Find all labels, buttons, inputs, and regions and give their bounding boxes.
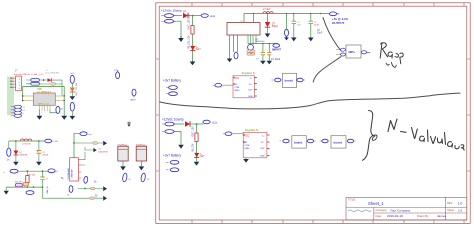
ground — [194, 162, 200, 166]
wire to charger — [74, 134, 80, 158]
svg-text:WiFi uc 2.4: WiFi uc 2.4 — [38, 104, 50, 106]
arrow mid — [71, 92, 73, 96]
diode D4 schottky — [265, 14, 279, 38]
diode D12 — [185, 121, 190, 126]
wire 5v rail — [244, 13, 330, 15]
rasp module box — [346, 45, 361, 58]
ground left — [4, 187, 9, 195]
svg-text:GND+: GND+ — [244, 148, 251, 150]
wire to ground — [177, 132, 182, 145]
connector oval bottom — [70, 102, 74, 111]
svg-text:C? 10uF: C? 10uF — [271, 58, 281, 61]
connector pin to regulator U4 — [213, 83, 233, 87]
svg-text:OUTPUT: OUTPUT — [332, 21, 345, 25]
LED column — [70, 73, 79, 120]
svg-text:CHARGER: CHARGER — [70, 168, 73, 178]
inductor L2 — [263, 8, 273, 14]
right pins down — [248, 35, 256, 44]
isolated connector pin A — [114, 70, 120, 79]
wire branch arrow 1 — [74, 141, 107, 146]
ground bottom — [71, 111, 73, 116]
transistor Q1 loop — [50, 106, 64, 113]
svg-text:2: 2 — [41, 110, 42, 112]
svg-text:James: James — [437, 214, 447, 218]
handwriting Rasp — [380, 43, 403, 64]
output connector — [329, 12, 339, 16]
svg-text:4: 4 — [47, 110, 48, 112]
connector oval in — [3, 169, 18, 174]
svg-text:OUT: OUT — [260, 148, 265, 150]
junctions on rail — [267, 13, 269, 15]
wires to rail — [51, 80, 62, 96]
zener D3 — [13, 141, 28, 166]
svg-text:L? 47uH: L? 47uH — [22, 144, 31, 146]
junction — [196, 123, 198, 125]
svg-text:GND+: GND+ — [234, 90, 241, 92]
svg-text:OUT_12V_10A: OUT_12V_10A — [188, 13, 191, 29]
resistor R1 tan — [51, 83, 56, 86]
wire 12v rail down — [192, 16, 194, 61]
pen stroke output to rasp — [323, 18, 342, 52]
svg-text:VCC: VCC — [234, 77, 239, 80]
svg-text:board: board — [285, 79, 294, 83]
svg-text:+3v7 Battery: +3v7 Battery — [163, 79, 181, 83]
capacitor C1 bulk — [36, 141, 49, 166]
feedback resistors R — [247, 50, 255, 55]
sheet outer frame — [156, 3, 470, 224]
border tick marks — [156, 3, 470, 224]
rail down — [196, 124, 198, 162]
svg-text:GND: GND — [248, 96, 253, 98]
board module 2 — [280, 136, 316, 148]
connector pin bat1 — [166, 86, 177, 90]
junction — [192, 15, 194, 17]
connector oval B- — [68, 186, 73, 197]
svg-text:GND?: GND? — [130, 100, 137, 102]
svg-text:5): 5) — [95, 194, 97, 198]
resistor R10 fuse — [191, 26, 194, 35]
svg-text:REV:: REV: — [447, 201, 453, 205]
regulator U5 right pin stubs — [267, 135, 270, 156]
svg-text:INPUT: INPUT — [272, 48, 281, 52]
connector oval below — [26, 191, 34, 195]
capacitor C5 — [291, 14, 301, 42]
net label output — [332, 17, 349, 25]
regulator U4 body — [233, 72, 256, 98]
connector pin EN2 — [285, 14, 289, 37]
svg-text:Sheet:: Sheet: — [447, 208, 455, 212]
svg-text:GND: GND — [260, 156, 265, 158]
fuse F1 — [26, 79, 39, 86]
connector pin 2 — [162, 130, 177, 134]
connector pin bat4 — [166, 168, 179, 172]
resistor fuse 2 — [195, 133, 198, 142]
pin wire 2 up to 5v rail — [253, 14, 255, 23]
power arrow +5v — [284, 35, 289, 40]
handwriting N - Valvulas — [388, 119, 464, 150]
right pins — [55, 96, 64, 101]
power flag small — [127, 122, 131, 127]
op U3 buck module body — [227, 21, 260, 35]
svg-text:+12v: +12v — [210, 14, 216, 18]
connector pin EN — [234, 52, 238, 59]
svg-text:IN_12V_10A: IN_12V_10A — [188, 35, 191, 48]
svg-text:Regulator 5v: Regulator 5v — [245, 129, 259, 132]
fb wire — [248, 43, 278, 45]
svg-text:+12v: +12v — [212, 120, 218, 124]
connector pin to regulator U5 — [223, 132, 243, 136]
USB module U1 body — [33, 93, 55, 105]
green pin links — [81, 152, 85, 165]
ferrite bead FB1 — [15, 181, 24, 186]
wire rail 2 — [6, 186, 42, 188]
input connector — [271, 44, 281, 61]
svg-text:Date:: Date: — [376, 214, 382, 218]
ground — [190, 61, 196, 66]
ground under U1 — [36, 109, 42, 120]
capacitor C input 2 — [267, 44, 273, 65]
wire — [176, 15, 182, 17]
diode D1 — [48, 78, 52, 82]
svg-text:Company:: Company: — [376, 208, 388, 212]
wire down right — [43, 187, 79, 198]
resistor R2 — [26, 171, 36, 187]
svg-text:22uF: 22uF — [314, 24, 320, 26]
left pins — [23, 96, 34, 101]
junctions — [15, 140, 17, 142]
svg-text:IN_12V: IN_12V — [193, 143, 195, 151]
valve K2 — [136, 145, 149, 182]
wire rail — [18, 170, 48, 172]
svg-text:L? 4u7: L? 4u7 — [263, 8, 271, 11]
wire to ground — [176, 21, 181, 37]
svg-text:+12Vdc 10amp: +12Vdc 10amp — [162, 117, 184, 121]
jumper G loop — [248, 45, 254, 51]
svg-text:SS34: SS34 — [272, 25, 279, 28]
LED D11 — [190, 46, 201, 51]
capacitor C input 1 — [256, 44, 266, 65]
connector J10 pin 1 — [161, 14, 176, 18]
regulator U5 body — [243, 129, 267, 158]
svg-text:VCC: VCC — [244, 134, 249, 137]
bottom pins to ground — [230, 35, 238, 59]
TITLE-BLOCK — [346, 197, 467, 220]
svg-text:Your Company: Your Company — [390, 208, 411, 212]
signature squiggle — [348, 210, 371, 212]
valve K1 — [118, 145, 131, 182]
svg-text:board: board — [294, 141, 303, 145]
svg-text:5): 5) — [94, 179, 96, 183]
connector pin +12v out — [201, 14, 216, 18]
connector pin bat3 — [166, 160, 179, 164]
pin dots left — [233, 77, 234, 78]
svg-text:1N5819: 1N5819 — [19, 155, 27, 157]
sheet inner frame — [159, 6, 467, 220]
ground right rail — [61, 96, 67, 120]
connector oval out — [48, 169, 59, 173]
svg-text:Regulator 5v: Regulator 5v — [242, 72, 256, 75]
svg-text:R? 10k: R? 10k — [29, 174, 37, 176]
svg-text:in: in — [3, 172, 5, 174]
USB module U1 wires box — [23, 86, 64, 100]
ground below U5 — [243, 158, 249, 163]
svg-text:OUT_5V_1A: OUT_5V_1A — [75, 83, 78, 96]
connector oval top — [70, 75, 74, 83]
charger U2 body — [67, 158, 78, 181]
charger right pins — [78, 160, 81, 178]
svg-text:CTRL: CTRL — [244, 145, 250, 147]
svg-text:TITLE:: TITLE: — [348, 198, 356, 202]
wire branch arrow 3 — [78, 186, 107, 191]
wire — [190, 123, 203, 125]
highlight band — [7, 77, 14, 116]
diode D10 — [183, 11, 188, 19]
svg-text:2019-02-18: 2019-02-18 — [387, 214, 403, 218]
ground — [178, 145, 184, 149]
connector oval right — [45, 139, 59, 143]
svg-text:520/07/08: 520/07/08 — [98, 151, 108, 153]
capacitor C2 — [40, 171, 49, 187]
pin wire up to 5v rail — [243, 14, 245, 23]
pen stroke rasp to board — [313, 57, 341, 83]
svg-text:NiPo: NiPo — [349, 50, 356, 54]
svg-text:1/1: 1/1 — [458, 208, 463, 212]
svg-text:5): 5) — [61, 176, 63, 180]
connector J1 pin wires — [11, 78, 16, 87]
connector J1 body — [16, 76, 22, 91]
capacitor C3 tan — [23, 183, 28, 187]
rasp connector stub right — [361, 51, 370, 54]
svg-text:board: board — [334, 141, 343, 145]
svg-text:03962A-BAT: 03962A-BAT — [67, 167, 70, 179]
bottom pins — [39, 105, 50, 109]
connector oval left — [7, 141, 11, 162]
connector pin bat2 — [166, 92, 177, 96]
ground — [178, 36, 184, 42]
board module 3 — [320, 136, 356, 148]
connector pin — [162, 122, 177, 126]
svg-text:220uF: 220uF — [42, 155, 49, 157]
LED D13 — [194, 153, 205, 158]
connector oval B+ — [83, 176, 88, 183]
rasp connector stubs left — [336, 48, 345, 56]
handwritten curly brace — [363, 111, 373, 161]
wire top rail — [9, 140, 44, 142]
svg-text:Header/Male 0.5A_CH: Header/Male 0.5A_CH — [14, 73, 43, 76]
board module 1 — [272, 73, 306, 87]
isolated connector pin B — [130, 89, 137, 101]
svg-text:V2: V2 — [147, 179, 149, 181]
inductor L1 — [20, 139, 31, 146]
connector J11 pin 2 — [161, 19, 176, 23]
SHEET-BORDER — [156, 3, 470, 224]
svg-text:V1: V1 — [129, 179, 131, 181]
regulator U4 right pin stubs — [254, 78, 257, 97]
wire — [188, 15, 201, 17]
svg-text:10uF: 10uF — [317, 33, 323, 35]
svg-text:OUT_12V: OUT_12V — [193, 126, 195, 137]
connector pin out — [203, 120, 218, 124]
svg-text:Sheet_1: Sheet_1 — [368, 201, 384, 206]
svg-text:OUT: OUT — [248, 90, 253, 92]
svg-text:+3v7 Battery: +3v7 Battery — [163, 153, 181, 157]
ground — [227, 59, 233, 63]
wire branch arrow 4 — [78, 194, 107, 201]
wire — [177, 123, 185, 125]
svg-text:12v: 12v — [7, 160, 10, 162]
brace loop — [372, 135, 377, 140]
svg-text:3: 3 — [44, 110, 45, 112]
lower connector cluster ovals — [11, 105, 26, 117]
svg-text:BUCK-5v: BUCK-5v — [256, 41, 266, 43]
wire fuse to diode — [39, 80, 50, 84]
svg-text:+12Vdc 10amp: +12Vdc 10amp — [161, 9, 182, 13]
svg-text:1.0: 1.0 — [458, 201, 463, 205]
scribble under rasp — [386, 63, 396, 68]
svg-text:DO_O508.4R5: DO_O508.4R5 — [46, 72, 61, 74]
svg-text:1uF: 1uF — [297, 24, 301, 26]
svg-text:USB: USB — [37, 89, 42, 91]
wire branch arrow 2 — [85, 147, 108, 153]
svg-text:BAT_IN: BAT_IN — [46, 186, 49, 193]
connector oval +5v in — [80, 132, 93, 136]
LED D2 orange — [70, 88, 75, 93]
svg-text:CTRL: CTRL — [234, 87, 240, 89]
pin dots left U5 — [243, 134, 244, 135]
capacitor C6 — [308, 14, 319, 42]
svg-text:Drawn By:: Drawn By: — [417, 214, 429, 218]
